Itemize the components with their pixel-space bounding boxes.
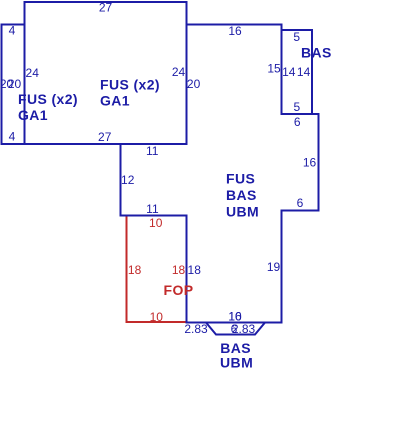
svg-text:14: 14 bbox=[282, 65, 296, 79]
BAS UBM trapezoid bump bbox=[206, 323, 265, 335]
svg-text:GA1: GA1 bbox=[18, 107, 48, 123]
svg-text:FUS (x2): FUS (x2) bbox=[100, 77, 160, 93]
svg-text:16: 16 bbox=[303, 156, 317, 170]
svg-text:27: 27 bbox=[99, 1, 113, 15]
svg-text:FOP: FOP bbox=[164, 282, 194, 298]
svg-text:2.83: 2.83 bbox=[232, 322, 256, 336]
svg-text:12: 12 bbox=[121, 173, 135, 187]
svg-text:4: 4 bbox=[9, 24, 16, 38]
svg-text:24: 24 bbox=[172, 65, 186, 79]
svg-text:20: 20 bbox=[8, 77, 22, 91]
FUS (x2) GA1 big rectangle bbox=[25, 2, 187, 144]
svg-text:19: 19 bbox=[267, 260, 281, 274]
FUS BAS UBM main outline bbox=[121, 25, 319, 323]
svg-text:14: 14 bbox=[297, 65, 311, 79]
svg-text:10: 10 bbox=[149, 216, 163, 230]
svg-text:UBM: UBM bbox=[220, 355, 253, 371]
svg-text:18: 18 bbox=[128, 263, 142, 277]
FOP porch outline (red rectangle) bbox=[127, 216, 187, 323]
svg-text:6: 6 bbox=[297, 196, 304, 210]
svg-text:20: 20 bbox=[187, 77, 201, 91]
svg-text:6: 6 bbox=[294, 115, 301, 129]
svg-text:FUS: FUS bbox=[226, 171, 255, 187]
svg-text:5: 5 bbox=[293, 30, 300, 44]
svg-text:16: 16 bbox=[228, 24, 242, 38]
svg-text:18: 18 bbox=[188, 263, 202, 277]
svg-text:FUS (x2): FUS (x2) bbox=[18, 91, 78, 107]
svg-text:BAS: BAS bbox=[301, 45, 332, 61]
svg-text:11: 11 bbox=[146, 202, 159, 216]
BAS box bbox=[282, 30, 313, 114]
svg-text:BAS: BAS bbox=[226, 187, 257, 203]
svg-text:4: 4 bbox=[9, 130, 16, 144]
svg-text:15: 15 bbox=[267, 62, 281, 76]
svg-text:2.83: 2.83 bbox=[184, 322, 208, 336]
svg-text:27: 27 bbox=[98, 130, 112, 144]
svg-text:GA1: GA1 bbox=[100, 93, 130, 109]
svg-text:18: 18 bbox=[172, 263, 186, 277]
svg-text:24: 24 bbox=[26, 66, 40, 80]
svg-text:UBM: UBM bbox=[226, 204, 259, 220]
svg-text:10: 10 bbox=[150, 310, 164, 324]
svg-text:11: 11 bbox=[146, 144, 159, 158]
svg-text:5: 5 bbox=[294, 100, 301, 114]
FUS (x2) GA1 small left rectangle bbox=[2, 25, 25, 145]
